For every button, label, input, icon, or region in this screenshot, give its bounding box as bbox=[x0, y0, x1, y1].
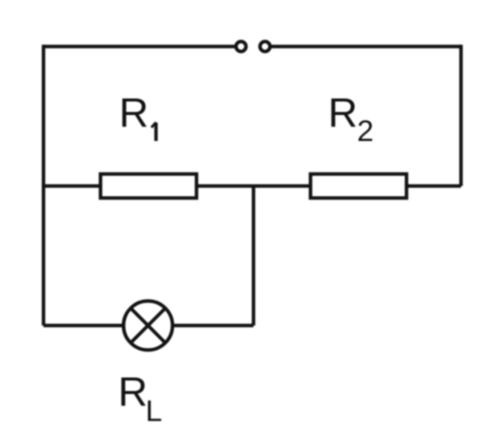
lamp RL cross stroke 1 bbox=[131, 308, 166, 343]
svg-text:R: R bbox=[119, 90, 149, 136]
lamp RL cross stroke 2 bbox=[131, 308, 166, 343]
wire right vertical bbox=[459, 45, 463, 186]
wire middle-to-bottom vertical bbox=[252, 186, 256, 326]
svg-text:R: R bbox=[118, 369, 148, 415]
label R1 subscript 1 bbox=[151, 122, 156, 141]
resistor R2 body bbox=[311, 174, 407, 198]
wire top-left segment bbox=[44, 45, 235, 49]
wire bottom-left segment bbox=[44, 324, 125, 328]
svg-text:R: R bbox=[328, 90, 358, 136]
wire middle left segment bbox=[44, 184, 101, 188]
wire top-right segment bbox=[272, 45, 462, 49]
wire left vertical bbox=[42, 45, 46, 326]
switch S1 left terminal circle bbox=[236, 42, 246, 52]
resistor R1 body bbox=[101, 174, 197, 198]
wire middle right segment bbox=[407, 184, 461, 188]
lamp RL circle bbox=[124, 301, 173, 350]
svg-text:L: L bbox=[146, 395, 163, 428]
svg-text:2: 2 bbox=[357, 115, 374, 148]
wire bottom-right segment bbox=[172, 324, 254, 328]
switch S1 right terminal circle bbox=[260, 42, 270, 52]
wire middle center segment bbox=[197, 184, 310, 188]
